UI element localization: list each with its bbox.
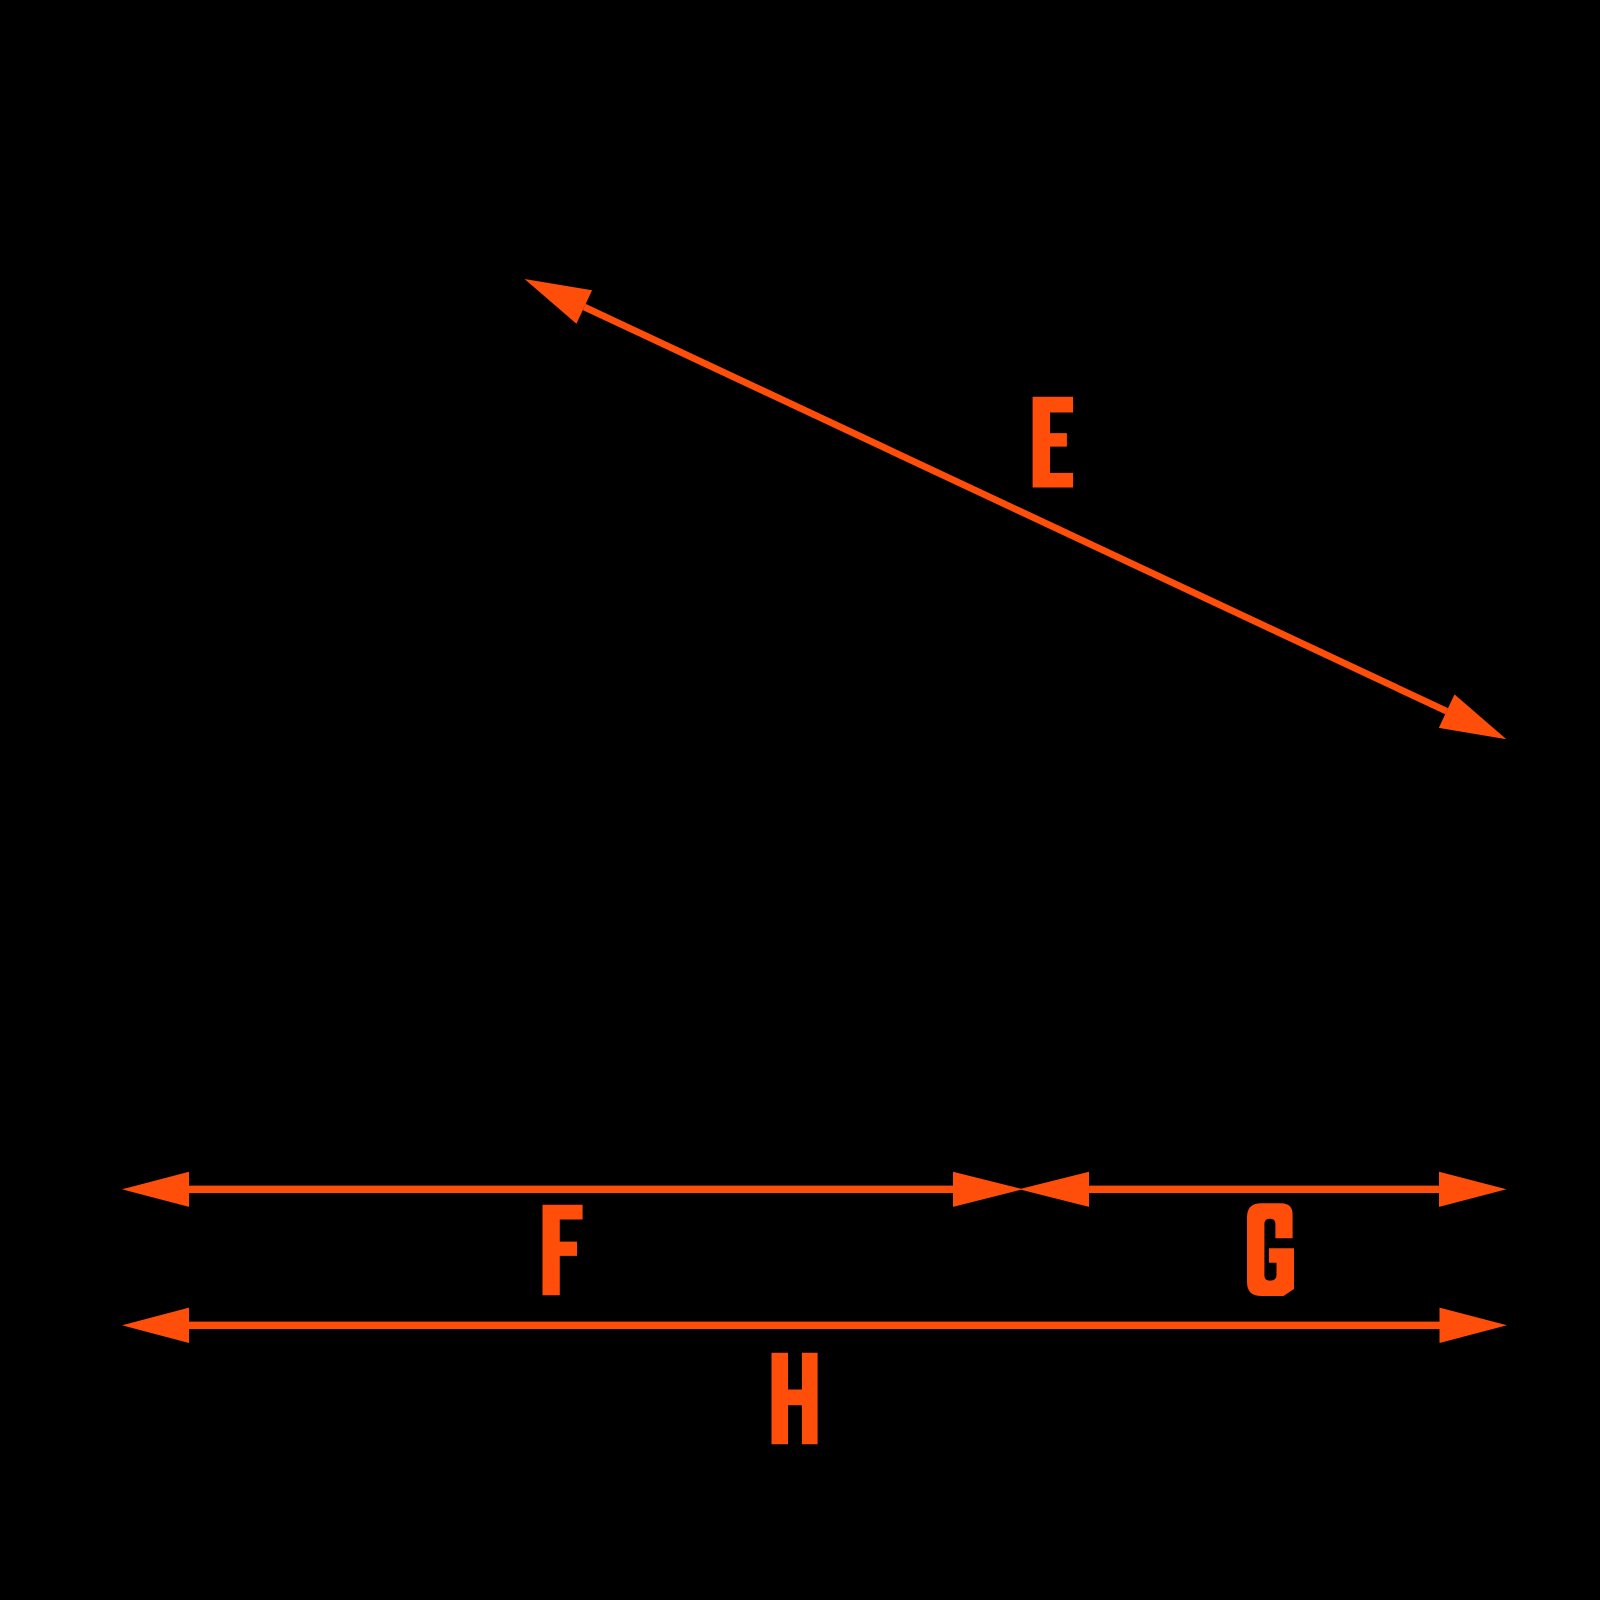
line H (horizontal double arrow) (122, 1308, 1507, 1343)
label G (1247, 1203, 1294, 1296)
line E (diagonal double arrow) (525, 279, 1507, 739)
label E (1033, 397, 1074, 488)
label F (543, 1205, 583, 1296)
label H (772, 1353, 818, 1445)
line F (horizontal double arrow) (122, 1172, 1023, 1207)
line G (horizontal double arrow) (1019, 1172, 1507, 1207)
